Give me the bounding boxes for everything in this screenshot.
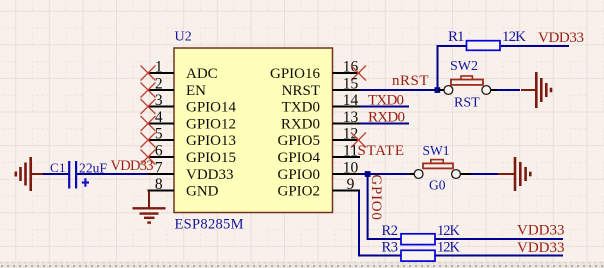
svg-text:ADC: ADC bbox=[186, 66, 218, 82]
svg-text:nRST: nRST bbox=[392, 73, 429, 89]
pin 7 VDD33 bbox=[148, 159, 234, 183]
svg-text:VDD33: VDD33 bbox=[517, 223, 565, 239]
ground (earth bars) right of SW1 bbox=[498, 157, 530, 191]
pin 10 GPIO0 bbox=[277, 159, 360, 183]
pin 5 GPIO13 bbox=[148, 125, 237, 149]
wire R3 to VDD33 bbox=[435, 255, 563, 257]
resistor R2 bbox=[382, 223, 461, 245]
svg-text:13: 13 bbox=[343, 109, 359, 126]
wire SW1 to ground bbox=[471, 173, 499, 175]
svg-text:GPIO15: GPIO15 bbox=[186, 150, 236, 166]
wire SW2 to ground bbox=[497, 89, 520, 91]
no-ERC X pin 1 bbox=[141, 66, 156, 81]
svg-text:GPIO5: GPIO5 bbox=[277, 133, 320, 149]
svg-text:10: 10 bbox=[343, 159, 359, 176]
svg-text:C1: C1 bbox=[50, 160, 66, 175]
svg-text:GPIO2: GPIO2 bbox=[277, 183, 320, 199]
svg-text:6: 6 bbox=[155, 142, 163, 159]
switch SW1 bbox=[409, 143, 471, 193]
svg-text:GPIO4: GPIO4 bbox=[277, 150, 320, 166]
svg-text:STATE: STATE bbox=[358, 143, 405, 159]
svg-text:TXD0: TXD0 bbox=[368, 93, 404, 109]
resistor R1 bbox=[448, 29, 526, 50]
no-ERC X pin 3 bbox=[141, 99, 156, 114]
wire pin9 down to R3 bbox=[359, 191, 401, 256]
pin 13 RXD0 bbox=[281, 109, 360, 133]
svg-text:15: 15 bbox=[343, 75, 359, 92]
svg-text:16: 16 bbox=[343, 58, 359, 75]
svg-text:GPIO16: GPIO16 bbox=[270, 66, 321, 82]
svg-text:NRST: NRST bbox=[282, 83, 320, 99]
svg-text:12K: 12K bbox=[437, 239, 461, 255]
pin 16 GPIO16 bbox=[270, 58, 360, 82]
ground (earth bars) left of C1 bbox=[16, 157, 44, 191]
svg-text:11: 11 bbox=[343, 142, 358, 159]
ground (earth bars) right of SW2 bbox=[521, 72, 551, 108]
svg-text:GPIO0: GPIO0 bbox=[368, 174, 384, 220]
wire ground to C1 bbox=[43, 173, 69, 175]
svg-text:ESP8285M: ESP8285M bbox=[175, 217, 244, 233]
no-ERC X pin 16 bbox=[351, 66, 366, 81]
no-ERC X pin 6 bbox=[141, 150, 156, 165]
pin 2 EN bbox=[148, 75, 207, 99]
wire TXD0 bbox=[360, 106, 409, 108]
svg-text:GPIO13: GPIO13 bbox=[186, 133, 236, 149]
wire nRST pin15 to SW2 bbox=[360, 89, 444, 91]
svg-text:8: 8 bbox=[155, 176, 163, 193]
svg-text:1: 1 bbox=[155, 58, 163, 75]
svg-text:EN: EN bbox=[186, 83, 206, 99]
wire R2 to VDD33 bbox=[435, 238, 563, 240]
wire pin10 to SW1 bbox=[360, 173, 409, 175]
svg-text:9: 9 bbox=[347, 176, 355, 193]
svg-text:GND: GND bbox=[186, 183, 219, 199]
svg-text:12: 12 bbox=[343, 125, 359, 142]
svg-text:GPIO12: GPIO12 bbox=[186, 116, 236, 132]
svg-text:RXD0: RXD0 bbox=[368, 110, 405, 126]
svg-text:R1: R1 bbox=[448, 29, 465, 45]
svg-text:RST: RST bbox=[454, 96, 480, 111]
svg-text:4: 4 bbox=[155, 109, 163, 126]
svg-text:3: 3 bbox=[155, 92, 163, 109]
no-ERC X pin 2 bbox=[141, 83, 156, 98]
pin 8 GND bbox=[148, 176, 219, 200]
svg-text:TXD0: TXD0 bbox=[282, 99, 320, 115]
no-ERC X pin 12 bbox=[351, 133, 366, 148]
switch SW2 bbox=[438, 59, 498, 111]
wire C1 to pin7 bbox=[77, 173, 148, 175]
pin 11 GPIO4 bbox=[277, 142, 360, 166]
pin 4 GPIO12 bbox=[148, 109, 237, 133]
svg-text:VDD33: VDD33 bbox=[538, 30, 584, 46]
svg-text:VDD33: VDD33 bbox=[186, 167, 234, 183]
svg-text:SW1: SW1 bbox=[423, 143, 450, 158]
pin 6 GPIO15 bbox=[148, 142, 237, 166]
resistor R3 bbox=[382, 239, 461, 261]
svg-text:5: 5 bbox=[155, 125, 163, 142]
wire R1 to VDD33 bbox=[501, 45, 569, 47]
wire R1 branch vertical bbox=[438, 46, 467, 90]
svg-text:14: 14 bbox=[343, 92, 359, 109]
wire RXD0 bbox=[360, 123, 409, 125]
pin 9 GPIO2 bbox=[277, 176, 360, 200]
svg-text:VDD33: VDD33 bbox=[517, 240, 565, 256]
IC U2 ESP8285M body bbox=[174, 48, 333, 213]
capacitor C1 22uF bbox=[50, 160, 107, 189]
pin 12 GPIO5 bbox=[277, 125, 360, 149]
pin 15 NRST bbox=[282, 75, 360, 99]
wire GPIO0 branch down to R2 bbox=[368, 174, 401, 239]
pin 3 GPIO14 bbox=[148, 92, 237, 116]
svg-text:RXD0: RXD0 bbox=[281, 116, 320, 132]
svg-text:R3: R3 bbox=[382, 239, 399, 255]
junction GPIO0 bbox=[365, 171, 371, 177]
svg-text:G0: G0 bbox=[429, 178, 446, 193]
svg-text:12K: 12K bbox=[437, 223, 461, 239]
no-ERC X pin 4 bbox=[141, 116, 156, 131]
junction nRST bbox=[435, 87, 441, 93]
svg-text:GPIO0: GPIO0 bbox=[277, 167, 320, 183]
svg-text:SW2: SW2 bbox=[450, 59, 478, 74]
svg-text:7: 7 bbox=[155, 159, 163, 176]
svg-text:R2: R2 bbox=[382, 223, 399, 239]
no-ERC X pin 5 bbox=[141, 133, 156, 148]
svg-text:U2: U2 bbox=[175, 30, 192, 45]
svg-text:2: 2 bbox=[155, 75, 163, 92]
svg-text:12K: 12K bbox=[502, 29, 526, 45]
svg-text:VDD33: VDD33 bbox=[111, 158, 154, 174]
ground GND below pin 8 bbox=[133, 191, 166, 223]
svg-text:GPIO14: GPIO14 bbox=[186, 99, 237, 115]
pin 14 TXD0 bbox=[282, 92, 360, 116]
pin 1 ADC bbox=[148, 58, 218, 82]
